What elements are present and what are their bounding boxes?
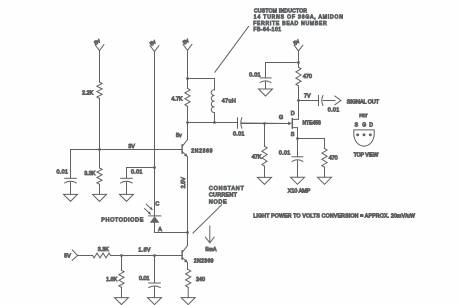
svg-text:7V: 7V	[304, 93, 311, 99]
label 7V	[304, 93, 311, 99]
label TOP VIEW	[354, 152, 379, 158]
ground base cap	[148, 298, 162, 305]
svg-text:0.01: 0.01	[139, 276, 150, 282]
inductor L1 47uH	[211, 79, 236, 123]
FET NTE458	[242, 119, 298, 139]
svg-text:3.3K: 3.3K	[98, 247, 109, 253]
svg-text:X10 AMP: X10 AMP	[288, 188, 311, 194]
ground source cap	[291, 177, 305, 184]
svg-text:0.01: 0.01	[279, 150, 291, 156]
label FET S	[291, 132, 295, 138]
capacitor 0.01 photodiode filter	[121, 168, 155, 195]
svg-text:14 TURNS OF 36GA, AMIDON: 14 TURNS OF 36GA, AMIDON	[254, 15, 344, 21]
leader line custom inductor	[215, 26, 249, 72]
svg-text:CURRENT: CURRENT	[209, 193, 238, 199]
label FET G	[279, 115, 283, 121]
junction dot base cap	[153, 254, 156, 257]
power +5v arrow output	[293, 38, 303, 67]
svg-text:470: 470	[329, 156, 338, 162]
node constant current dot	[186, 231, 189, 234]
transistor Q2 2N2369	[182, 233, 188, 264]
svg-text:CUSTOM INDUCTOR: CUSTOM INDUCTOR	[254, 9, 307, 15]
capacitor 0.01 source	[279, 139, 303, 178]
capacitor 0.01 coupling	[233, 118, 245, 138]
wire emitter to node	[187, 157, 189, 232]
svg-text:2.5V: 2.5V	[181, 177, 187, 188]
label SIGNAL OUT	[347, 100, 380, 106]
resistor 3.3K vertical	[84, 150, 102, 195]
svg-text:5mA: 5mA	[205, 247, 216, 253]
capacitor 0.01 output	[319, 96, 340, 114]
label FET D	[291, 111, 295, 117]
svg-text:D: D	[369, 123, 373, 129]
resistor 3.3K horizontal	[93, 247, 111, 258]
wire drain lead	[293, 101, 299, 120]
resistor 470 drain	[296, 67, 312, 100]
svg-text:0.01: 0.01	[131, 170, 143, 176]
label Q2 2N2369	[194, 259, 214, 265]
wire bypass rail	[266, 63, 299, 78]
wire 3V rail	[71, 149, 183, 151]
label NTE458	[303, 120, 322, 126]
junction dot inductor bottom	[213, 121, 216, 124]
photodiode pin A	[158, 227, 162, 233]
svg-text:3V: 3V	[128, 144, 135, 150]
svg-text:5V: 5V	[64, 254, 71, 260]
signal out arrow	[323, 96, 341, 105]
svg-text:2.2K: 2.2K	[82, 91, 93, 97]
wire inductor top	[188, 78, 215, 80]
svg-text:NODE: NODE	[209, 199, 227, 205]
current arrow 5mA	[205, 226, 216, 253]
label FET package	[359, 113, 368, 119]
label X10 AMP	[288, 188, 311, 194]
leader line constant current	[193, 205, 222, 233]
svg-text:0.01: 0.01	[233, 132, 245, 138]
svg-text:3.3K: 3.3K	[84, 171, 95, 177]
label PHOTODIODE	[101, 218, 144, 224]
svg-text:0.01: 0.01	[328, 107, 340, 113]
svg-text:FERRITE BEAD NUMBER: FERRITE BEAD NUMBER	[253, 21, 327, 27]
ground bypass cap	[259, 89, 273, 96]
svg-text:PHOTODIODE: PHOTODIODE	[101, 218, 144, 224]
ground 3.3K	[93, 194, 107, 201]
label 1.8V	[138, 248, 151, 254]
svg-text:2N2369: 2N2369	[191, 149, 213, 155]
svg-text:FET: FET	[359, 113, 368, 119]
FET package pins	[356, 133, 371, 136]
capacitor 0.01 base	[139, 256, 160, 298]
junction dot 1.8K	[120, 254, 123, 257]
power +5v arrow photodiode	[149, 39, 159, 216]
label 2.5V	[181, 177, 187, 188]
transistor Q1 2N2369	[182, 123, 188, 158]
svg-text:5v: 5v	[176, 133, 182, 139]
junction dot 2.2K-3.3K	[98, 148, 101, 151]
wire source rail	[298, 138, 325, 140]
svg-text:LIGHT POWER TO VOLTS CONVERSIO: LIGHT POWER TO VOLTS CONVERSION = APPROX…	[253, 214, 415, 220]
ground filter cap	[120, 194, 134, 201]
wire output	[299, 100, 319, 102]
junction dot 47K top	[263, 122, 266, 125]
resistor 47K	[252, 124, 267, 178]
wire anode to node	[155, 232, 188, 234]
junction dot source	[296, 137, 299, 140]
resistor 470 source	[322, 139, 338, 178]
resistor 4.7K	[171, 79, 190, 123]
svg-text:CONSTANT: CONSTANT	[209, 186, 245, 192]
svg-text:1.8K: 1.8K	[106, 277, 117, 283]
label Q1 5v	[176, 133, 182, 139]
svg-text:2N2369: 2N2369	[194, 259, 214, 265]
junction dot 4.7K bottom	[186, 121, 189, 124]
svg-text:NTE458: NTE458	[303, 120, 322, 126]
svg-text:240: 240	[196, 277, 205, 283]
svg-text:G: G	[362, 123, 366, 129]
svg-text:S: S	[291, 132, 295, 138]
junction dot filter cap	[153, 166, 156, 169]
input 5V arrow	[64, 250, 77, 260]
node 3V	[128, 144, 135, 150]
note custom inductor	[253, 9, 344, 34]
svg-text:SIGNAL OUT: SIGNAL OUT	[347, 100, 380, 106]
note CONSTANT CURRENT NODE	[209, 186, 245, 206]
svg-text:FB-64-101: FB-64-101	[253, 27, 281, 33]
resistor 1.8K	[106, 256, 124, 298]
svg-text:470: 470	[303, 74, 312, 80]
svg-text:47K: 47K	[252, 154, 262, 160]
svg-text:G: G	[279, 115, 283, 121]
ground left 0.01	[64, 194, 78, 201]
wire collector rail	[188, 122, 238, 124]
photodiode light arrows	[145, 204, 153, 215]
label pins S G D	[355, 123, 374, 129]
label Q1 2N2369	[191, 149, 213, 155]
resistor 2.2K	[82, 82, 102, 149]
power +5v arrow stage1	[182, 38, 192, 79]
junction dot stage1 top	[186, 77, 189, 80]
capacitor 0.01 bypass	[249, 72, 271, 89]
capacitor 0.01 left	[56, 150, 76, 195]
resistor 240	[186, 263, 205, 298]
ground source 470	[318, 177, 332, 184]
junction dot 7V	[297, 99, 300, 102]
svg-text:C: C	[155, 202, 159, 208]
ground 47K	[258, 177, 272, 184]
svg-text:0.01: 0.01	[249, 72, 261, 78]
svg-text:TOP VIEW: TOP VIEW	[354, 152, 379, 158]
FET package outline	[354, 130, 374, 146]
wire cap to gate	[242, 122, 289, 125]
power +8v arrow	[93, 38, 103, 82]
photodiode pin C	[155, 202, 159, 208]
photodiode	[149, 216, 161, 233]
svg-text:0.01: 0.01	[56, 170, 68, 176]
note light power conversion	[253, 214, 415, 220]
svg-text:47uH: 47uH	[222, 99, 236, 105]
svg-text:4.7K: 4.7K	[171, 97, 182, 103]
ground 240	[181, 298, 195, 305]
svg-text:A: A	[158, 227, 162, 233]
junction dot bypass rail	[297, 61, 300, 64]
svg-text:D: D	[291, 111, 295, 117]
wire 1.8V rail	[78, 255, 183, 257]
svg-text:1.8V: 1.8V	[138, 248, 151, 254]
ground 1.8K	[115, 298, 129, 305]
